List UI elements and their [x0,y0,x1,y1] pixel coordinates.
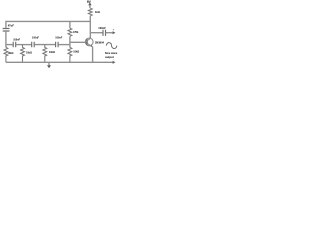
resistor R5 10k (node B to ground) [21,45,25,63]
node A ladder wire [6,44,13,46]
sine wave symbol [106,43,116,49]
capacitor C3 100nF [56,42,59,48]
output terminal arrow minus [113,61,116,64]
wire base [70,41,87,43]
transistor Q1 2N3904 [85,38,93,46]
svg-text:10kΩ: 10kΩ [73,51,79,54]
wire [58,44,70,46]
resistor R1 470k (bias from collector) [68,28,72,36]
capacitor C4 47uF [3,29,10,32]
svg-text:output: output [105,55,114,59]
ground [48,62,50,65]
svg-text:100nF: 100nF [98,26,106,30]
wire collector vertical [89,16,91,38]
svg-text:47uF: 47uF [8,24,15,28]
capacitor C5 output [103,30,106,36]
resistor R3 1k (collector load) [88,8,92,16]
svg-text:100nF: 100nF [13,39,20,42]
resistor R2 10k (base to ground) [68,47,72,62]
resistor R4 10k (node A to ground) [4,47,8,62]
wire to output terminal [106,32,113,34]
svg-text:10kΩ: 10kΩ [26,52,32,55]
svg-text:470k: 470k [73,31,79,34]
wire [69,36,71,47]
svg-text:10kΩ: 10kΩ [8,52,14,55]
wire ground rail [6,61,113,63]
wire [35,44,56,46]
9V supply arrow [89,4,91,8]
wire [16,44,31,46]
wire emitter down [92,47,94,63]
svg-text:1kΩ: 1kΩ [95,10,100,14]
capacitor C1 100nF [13,42,16,48]
svg-text:+: + [113,29,115,32]
wire mid vertical top [69,21,71,28]
capacitor C2 100nF [32,42,35,48]
output terminal arrow plus [113,31,116,34]
wire output from collector [90,32,102,34]
wire left column down [5,31,7,47]
svg-text:100nF: 100nF [32,37,39,40]
svg-text:10kΩ: 10kΩ [49,51,55,54]
svg-text:100nF: 100nF [55,37,62,40]
resistor R6 10k (node C to ground) [43,45,47,63]
svg-text:2N3904: 2N3904 [95,41,105,45]
svg-text:9V: 9V [87,0,92,4]
wire top feedback rail [6,21,90,28]
